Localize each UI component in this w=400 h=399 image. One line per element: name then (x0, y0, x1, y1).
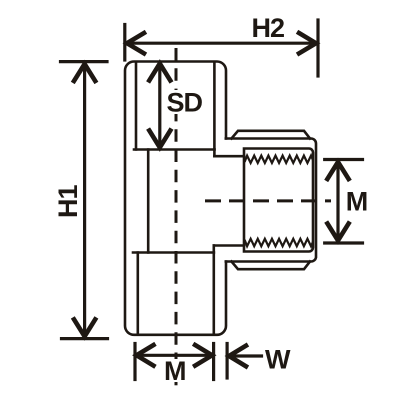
H2 right arrowhead (299, 33, 316, 53)
H1 bottom arrowhead (74, 319, 95, 336)
H2 dimension right extension line (316, 20, 319, 76)
bottom socket left wall (137, 253, 140, 335)
H1 dimension top extension line (61, 60, 108, 63)
thread zigzag bottom (245, 239, 313, 246)
top socket left wall (135, 62, 138, 150)
svg-text:W: W (265, 345, 291, 375)
M thread dimension top extension line (325, 158, 363, 161)
M thread top arrowhead (327, 162, 348, 179)
SD top arrowhead (149, 64, 170, 81)
svg-text:SD: SD (167, 88, 203, 118)
H1 dimension line (83, 66, 86, 334)
H2 dimension left extension line (123, 25, 126, 61)
side bore top line (214, 155, 244, 158)
H2 dimension line (129, 42, 314, 45)
bottom M dimension line (139, 354, 210, 357)
horizontal centerline of side port (205, 199, 331, 202)
vertical centerline of body (175, 48, 178, 392)
white knockout behind bottom M text (164, 359, 187, 382)
body outer outline (right edge hidden behind side port) (125, 62, 226, 335)
mid bore left wall (147, 150, 150, 253)
bottom M dimension left extension line (133, 344, 136, 380)
W dimension extension line (226, 344, 229, 379)
SD bottom arrowhead (149, 131, 170, 148)
W dimension line with leader (231, 354, 262, 357)
H1 dimension bottom extension line (62, 337, 108, 340)
side bore bottom line (214, 244, 244, 247)
W arrowhead (229, 346, 246, 367)
step from side bore bottom to bottom socket floor (213, 246, 216, 253)
H1 top arrowhead (74, 64, 95, 81)
bottom M right arrowhead (195, 345, 212, 366)
top socket right wall (213, 62, 216, 150)
M thread dimension line (336, 164, 339, 239)
flange chamfer ring top (232, 131, 311, 139)
SD dimension line (158, 66, 161, 145)
M thread bottom arrowhead (327, 224, 348, 241)
H2 left arrowhead (127, 33, 144, 53)
svg-text:H2: H2 (252, 13, 285, 43)
thread zigzag top (245, 156, 313, 163)
bottom socket floor (133, 251, 214, 254)
bottom M left arrowhead (137, 345, 154, 366)
svg-text:M: M (346, 187, 369, 217)
bottom M dimension right extension line (212, 344, 215, 380)
bottom socket right wall (213, 253, 216, 335)
svg-text:M: M (164, 356, 187, 386)
white knockout behind SD text (166, 90, 202, 114)
side port flange top line (226, 139, 316, 262)
svg-text:H1: H1 (53, 185, 83, 218)
M thread dimension bottom extension line (325, 241, 363, 244)
flange chamfer ring bottom (232, 262, 311, 270)
top socket floor (134, 148, 214, 151)
step from socket floor to side bore top (213, 150, 216, 157)
nut face outline (244, 149, 313, 252)
